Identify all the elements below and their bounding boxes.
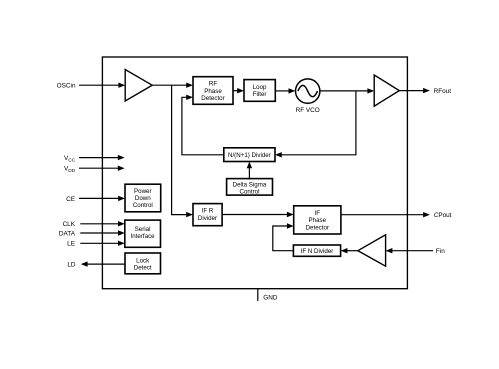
wire RFout output bbox=[399, 88, 430, 93]
wire CE input bbox=[79, 196, 125, 201]
wire VDD input bbox=[79, 166, 125, 171]
svg-text:LE: LE bbox=[67, 241, 75, 248]
ground pin GND bbox=[258, 289, 278, 302]
svg-text:Interface: Interface bbox=[131, 233, 156, 240]
wire Loop Filter to RF VCO bbox=[275, 88, 295, 93]
svg-text:Lock: Lock bbox=[136, 258, 150, 265]
wire Delta Sigma Control to N(N+1) divider bbox=[247, 162, 252, 179]
block U2 Loop Filter bbox=[244, 80, 275, 102]
svg-text:Down: Down bbox=[135, 195, 151, 202]
svg-text:Detector: Detector bbox=[306, 224, 329, 231]
svg-text:CPout: CPout bbox=[434, 212, 452, 219]
svg-text:IF N Divider: IF N Divider bbox=[301, 248, 334, 255]
op-amp B1 (reference oscillator buffer) bbox=[125, 70, 152, 102]
block U11 IF N Divider bbox=[293, 245, 340, 256]
svg-text:Detect: Detect bbox=[134, 265, 152, 272]
block U7 Serial Interface bbox=[125, 220, 161, 247]
svg-text:LD: LD bbox=[67, 262, 76, 269]
wire LD output bbox=[81, 261, 126, 266]
wire OSCin input bbox=[79, 83, 125, 88]
svg-text:Phase: Phase bbox=[204, 88, 222, 95]
wire CPout output bbox=[341, 212, 430, 217]
wire RF Phase Detector to Loop Filter bbox=[233, 88, 244, 93]
svg-text:Control: Control bbox=[240, 189, 260, 196]
svg-text:Delta Sigma: Delta Sigma bbox=[233, 181, 267, 188]
block U10 IF Phase Detector bbox=[294, 206, 341, 234]
oscillator U3 RF VCO bbox=[296, 79, 320, 114]
wire IF R Divider to IF Phase Detector bbox=[222, 212, 294, 217]
svg-text:Loop: Loop bbox=[253, 84, 267, 91]
svg-text:Power: Power bbox=[134, 188, 152, 195]
pin VCC label bbox=[64, 155, 76, 164]
svg-text:IF R: IF R bbox=[202, 208, 214, 215]
wire RF VCO to output buffer B2 bbox=[320, 88, 374, 93]
svg-text:DD: DD bbox=[68, 168, 75, 174]
chip outline bbox=[102, 57, 407, 289]
svg-text:CE: CE bbox=[66, 196, 75, 203]
svg-text:OSCin: OSCin bbox=[57, 83, 76, 90]
wire CLK input bbox=[80, 221, 125, 226]
svg-text:Control: Control bbox=[133, 202, 153, 209]
block U5 Delta Sigma Control bbox=[227, 179, 273, 196]
block U9 IF R Divider bbox=[193, 204, 222, 226]
wire N(N+1) divider output to RF Phase Detector bbox=[182, 95, 224, 155]
op-amp B2 (RF output buffer) bbox=[374, 75, 399, 106]
svg-text:Phase: Phase bbox=[309, 217, 327, 224]
svg-text:Serial: Serial bbox=[135, 226, 151, 233]
svg-text:Fin: Fin bbox=[436, 248, 445, 255]
block U4 N/(N+1) Divider bbox=[224, 148, 275, 162]
svg-text:CLK: CLK bbox=[63, 221, 76, 228]
wire VCC input bbox=[79, 155, 125, 160]
svg-text:GND: GND bbox=[263, 295, 278, 302]
svg-text:Filter: Filter bbox=[253, 91, 267, 98]
pin VDD label bbox=[64, 166, 76, 175]
op-amp B3 (IF input buffer) bbox=[358, 235, 386, 266]
block U6 Power Down Control bbox=[125, 184, 161, 212]
svg-text:N/(N+1) Divider: N/(N+1) Divider bbox=[228, 152, 271, 159]
svg-text:IF: IF bbox=[315, 210, 321, 217]
svg-text:CC: CC bbox=[68, 158, 75, 164]
svg-text:Detector: Detector bbox=[201, 95, 224, 102]
block U8 Lock Detect bbox=[125, 253, 161, 274]
wire B1 output to RF Phase Detector bbox=[152, 83, 193, 88]
svg-text:Divider: Divider bbox=[198, 215, 217, 222]
svg-text:RF: RF bbox=[209, 81, 217, 88]
block U1 RF Phase Detector bbox=[193, 77, 233, 105]
wire DATA input bbox=[80, 230, 125, 235]
wire reference tap down to IF R Divider bbox=[172, 85, 193, 217]
wire LE input bbox=[80, 241, 125, 246]
wire Fin input bbox=[386, 248, 433, 253]
wire IF N Divider output to IF Phase Detector bbox=[273, 223, 294, 250]
wire RF feedback tap down to N(N+1) divider bbox=[275, 91, 356, 158]
svg-text:RFout: RFout bbox=[434, 88, 452, 95]
svg-text:RF VCO: RF VCO bbox=[296, 107, 320, 114]
wire B3 output to IF N Divider bbox=[341, 248, 358, 253]
svg-text:DATA: DATA bbox=[59, 230, 76, 237]
